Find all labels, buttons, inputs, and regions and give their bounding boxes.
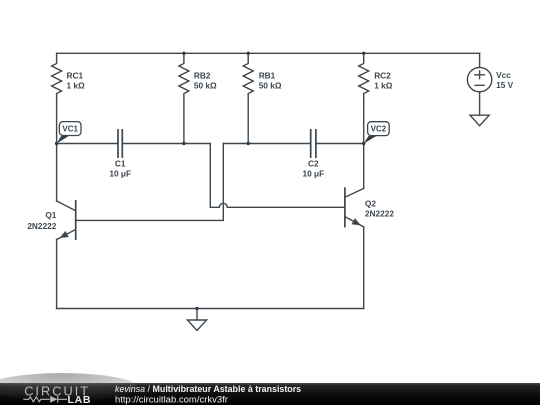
resistor RC2 [359,53,369,103]
wire Q1 emitter down [56,240,58,309]
svg-text:Q2: Q2 [365,198,376,208]
transistor Q1 [57,201,76,240]
capacitor C2 [311,130,316,157]
resistor RC1 [52,53,62,103]
svg-text:2N2222: 2N2222 [27,221,56,231]
node dot VC2 [362,142,365,145]
wire C1 to RB2/cross [122,143,210,145]
svg-text:kevinsa / Multivibrateur Astab: kevinsa / Multivibrateur Astable à trans… [115,384,301,394]
node dot RB1 bottom [247,142,250,145]
svg-text:10 μF: 10 μF [109,169,131,179]
svg-text:C2: C2 [308,159,319,169]
svg-text:C1: C1 [115,159,126,169]
svg-text:1 kΩ: 1 kΩ [374,81,393,91]
wire RB1 node to C2 [223,143,310,145]
resistor RB2 [179,53,189,103]
transistor Q2 [345,188,364,227]
wire VC1 node to C1 [57,143,118,145]
node dot RC2 top [362,52,365,55]
wire RB1 bottom [247,103,249,144]
wire top rail to Vcc [479,53,481,67]
ground (below Vcc) [470,115,489,126]
node dot VC1 [55,142,58,145]
wire Q2 emitter down [363,227,365,309]
svg-text:2N2222: 2N2222 [365,209,394,219]
svg-text:Vcc: Vcc [496,70,511,80]
svg-text:VC2: VC2 [371,125,387,134]
svg-text:RB2: RB2 [194,70,211,80]
node flag VC1 [57,122,81,144]
wire VC2 branch: cross right down to Q1 base [76,144,224,221]
CircuitLab logo [23,384,91,405]
svg-text:http://circuitlab.com/crkv3fr: http://circuitlab.com/crkv3fr [115,394,228,405]
capacitor C1 [118,130,122,157]
resistor RB1 [243,53,253,103]
svg-text:50 kΩ: 50 kΩ [194,81,217,91]
wire RC1 to VC1 node [56,103,58,144]
node dot ground tap [195,307,198,310]
wire cross left down to Q2 base (with hop) [210,144,345,208]
wire RB2 bottom [183,103,185,144]
svg-text:RB1: RB1 [259,70,276,80]
voltage source Vcc [467,67,491,91]
svg-text:LAB: LAB [68,394,92,405]
wire C2 to VC2 node [316,143,364,145]
svg-text:VC1: VC1 [62,125,78,134]
svg-text:50 kΩ: 50 kΩ [259,81,282,91]
footer credit text [115,384,301,405]
wire top rail [57,52,480,54]
node dot RB2 top [182,52,185,55]
svg-text:Q1: Q1 [45,210,56,220]
svg-text:RC1: RC1 [67,70,84,80]
wire Vcc to ground [479,92,481,115]
wire VC2 node down to Q2 collector [363,144,365,189]
node flag VC2 [364,122,390,144]
ground (bottom center) [187,309,206,331]
svg-text:1 kΩ: 1 kΩ [67,81,86,91]
wire RC2 to VC2 node [363,103,365,144]
wire VC1 node down to Q1 collector [56,144,58,202]
svg-text:RC2: RC2 [374,70,391,80]
wire bottom rail [57,308,364,310]
svg-text:10 μF: 10 μF [302,169,324,179]
node dot RB2 bottom [182,142,185,145]
svg-text:15 V: 15 V [496,80,514,90]
node dot RB1 top [247,52,250,55]
